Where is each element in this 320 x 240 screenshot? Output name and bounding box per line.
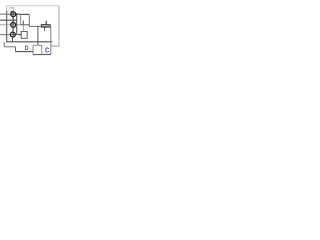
svg-text:C: C — [45, 48, 49, 55]
wire right edge vertical — [58, 6, 60, 46]
component C box — [33, 44, 42, 46]
wire pin1b horizontal — [0, 19, 17, 21]
wire cap to right vertical — [50, 26, 51, 28]
wire box bottom horizontal — [42, 54, 51, 56]
capacitor C1 bottom stub — [44, 28, 46, 31]
connector circle P3 — [10, 32, 15, 37]
junction dot node C — [19, 34, 21, 36]
wire right mid vertical — [50, 27, 52, 55]
capacitor C1 right cap — [49, 24, 51, 27]
junction tick node B — [22, 21, 24, 25]
wire branch D vertical 1 — [3, 42, 5, 47]
capacitor C1 left cap — [40, 24, 42, 27]
wire bottom-right horizontal — [51, 45, 59, 47]
wire left bus vertical — [6, 6, 8, 11]
wire mid horizontal — [29, 25, 40, 27]
wire main bottom horizontal — [6, 41, 52, 43]
capacitor C1 plate top — [42, 24, 50, 26]
connector circle P2 — [11, 22, 16, 27]
wire P3 bottom lead — [12, 37, 14, 42]
capacitor C1 top lead — [45, 21, 47, 25]
connector chain vertical — [12, 11, 14, 38]
wire pin2 horizontal — [0, 24, 21, 26]
wire pin1 horizontal — [0, 13, 11, 15]
junction dot node A — [16, 13, 18, 15]
wire pin3 horizontal — [0, 34, 21, 36]
wire R1 right jog down — [28, 25, 30, 27]
wire branch D vertical 2 — [15, 47, 17, 52]
wire branch D horizontal 1 — [4, 46, 15, 48]
svg-text:D: D — [25, 45, 29, 52]
wire column vertical — [16, 14, 18, 34]
label smudge above P1 — [9, 7, 14, 9]
connector circle P1 — [11, 12, 16, 17]
wire branch D horizontal 2 — [16, 51, 34, 53]
resistor R2 box — [21, 32, 27, 39]
wire top horizontal — [6, 5, 59, 7]
wire mid vertical to box — [37, 26, 39, 45]
resistor R1 box — [21, 13, 30, 15]
capacitor C1 plate bottom — [41, 26, 50, 28]
